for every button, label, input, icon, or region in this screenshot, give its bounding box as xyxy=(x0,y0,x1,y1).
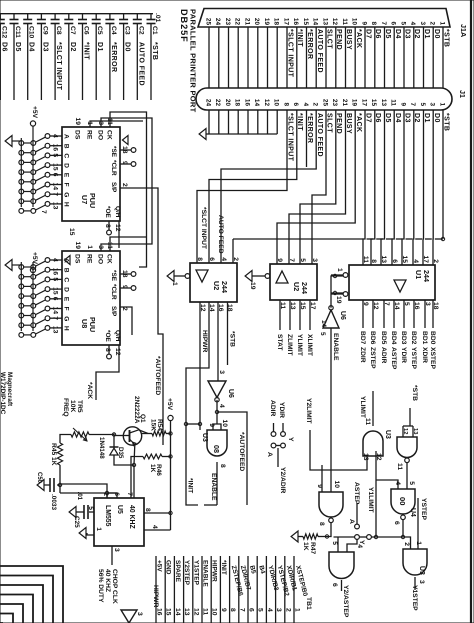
shift register U8 PUU xyxy=(62,251,120,345)
wire D5 from J1 to U1 xyxy=(381,110,385,265)
svg-text:ZLIMIT: ZLIMIT xyxy=(286,334,293,356)
buffer U1 74LS244 xyxy=(349,265,435,300)
svg-text:BD2: BD2 xyxy=(410,331,417,345)
svg-text:20: 20 xyxy=(253,18,260,26)
svg-text:CK: CK xyxy=(106,130,113,140)
svg-text:10: 10 xyxy=(333,481,340,489)
svg-text:U2: U2 xyxy=(292,282,301,291)
wire BD0 XSTEP xyxy=(432,300,434,328)
NAND gate pins 9,10,8 (step pulse) xyxy=(319,492,343,517)
svg-text:7: 7 xyxy=(40,210,47,214)
wire D2 from J1 to U1 xyxy=(412,110,415,265)
svg-text:8: 8 xyxy=(318,522,325,526)
svg-text:C5: C5 xyxy=(96,26,103,35)
wire BD2 YSTEP xyxy=(413,300,415,328)
wire ZLIMIT xyxy=(289,300,291,330)
svg-text:R45: R45 xyxy=(50,443,57,456)
capacitor C8 .01 on *SLCT INPUT xyxy=(54,14,56,20)
wire D1 from J1 to U1 xyxy=(422,110,425,265)
svg-text:12: 12 xyxy=(402,428,408,434)
svg-text:14: 14 xyxy=(52,183,59,191)
wire BD3 YDIR xyxy=(403,300,405,328)
capacitor C11 .01 on D5 xyxy=(13,14,15,20)
svg-text:1: 1 xyxy=(294,608,301,612)
TB1 pin 4 YDIR/B3 xyxy=(265,556,267,623)
svg-text:ZDIR: ZDIR xyxy=(359,347,366,363)
svg-text:13: 13 xyxy=(52,202,59,210)
svg-text:Y1LIMIT: Y1LIMIT xyxy=(367,487,374,514)
svg-text:*CLR: *CLR xyxy=(110,160,117,176)
wire ASTEP to A jumper xyxy=(356,503,358,524)
svg-text:D6: D6 xyxy=(374,29,381,39)
svg-text:4: 4 xyxy=(266,608,273,612)
svg-text:AUTO FEED: AUTO FEED xyxy=(217,215,224,254)
svg-text:6: 6 xyxy=(208,257,215,261)
svg-text:11: 11 xyxy=(362,256,369,263)
svg-text:19: 19 xyxy=(74,242,81,250)
svg-text:G: G xyxy=(63,316,70,321)
AND gate pins 4,5,6 (Y2/ASTEP) xyxy=(329,552,354,579)
svg-text:8: 8 xyxy=(229,608,236,612)
svg-text:FREQ: FREQ xyxy=(62,398,69,417)
svg-text:1K: 1K xyxy=(50,457,57,466)
wire YSTEP into U3 pin 1 xyxy=(417,498,419,549)
AND gate U3 pins 12,13,11 (YLIMIT) xyxy=(363,431,383,456)
TB1 pin 7 ZDIR/B7 xyxy=(238,556,240,623)
svg-text:1: 1 xyxy=(86,245,93,249)
svg-text:C: C xyxy=(63,153,70,158)
svg-text:21: 21 xyxy=(243,18,250,26)
svg-text:4: 4 xyxy=(220,257,227,261)
wire STAT xyxy=(279,300,281,330)
capacitor C1 .01 on *STB xyxy=(150,14,152,20)
svg-text:6: 6 xyxy=(393,521,400,525)
svg-text:C7: C7 xyxy=(69,26,76,35)
TB1 pin 15 GND xyxy=(164,556,166,623)
wire ENABLE into U6 input and NAND xyxy=(330,328,332,492)
svg-text:+5V: +5V xyxy=(31,106,38,119)
svg-text:3: 3 xyxy=(136,612,143,616)
wire BUSY from J1 to U2 input buffer xyxy=(289,110,346,264)
svg-text:2N2222A: 2N2222A xyxy=(133,396,140,424)
svg-text:8: 8 xyxy=(196,257,203,261)
capacitor C7 .01 on D2 xyxy=(68,14,70,20)
svg-text:.01: .01 xyxy=(154,13,161,23)
svg-text:DS: DS xyxy=(74,254,81,264)
svg-text:+5V: +5V xyxy=(166,398,173,411)
wire U7 Q/H stub xyxy=(118,221,120,248)
svg-text:Q/H: Q/H xyxy=(114,206,121,218)
svg-text:14: 14 xyxy=(253,99,260,107)
wire *STB output of U2 xyxy=(227,302,229,365)
svg-text:*SLCT INPUT: *SLCT INPUT xyxy=(55,42,62,91)
resistor R46 1K xyxy=(143,454,162,459)
svg-text:13: 13 xyxy=(380,99,387,107)
svg-text:8: 8 xyxy=(104,348,111,352)
AND gate U3 pins 1,2,3 (Y1STEP) xyxy=(403,549,427,575)
svg-text:*INIT: *INIT xyxy=(83,42,90,60)
svg-text:*ERROR: *ERROR xyxy=(110,42,117,72)
svg-text:*OE: *OE xyxy=(104,330,111,342)
svg-text:YDIR: YDIR xyxy=(400,347,407,363)
svg-text:HIPWR: HIPWR xyxy=(201,330,208,352)
svg-text:12: 12 xyxy=(375,453,382,461)
svg-text:C6: C6 xyxy=(83,26,90,35)
link *INIT to HIPWR wires xyxy=(186,423,200,425)
svg-text:9: 9 xyxy=(220,608,227,612)
svg-text:+5V: +5V xyxy=(31,252,38,265)
buffer U2 74LS244 (half B, toward J1) xyxy=(270,264,317,300)
svg-text:10K: 10K xyxy=(69,400,76,412)
svg-text:4: 4 xyxy=(302,102,309,106)
svg-text:2: 2 xyxy=(232,257,239,261)
svg-text:8: 8 xyxy=(144,508,151,512)
TB1 pin 8 ZSTEP/B6 xyxy=(229,556,231,623)
svg-text:BD7: BD7 xyxy=(359,331,366,345)
svg-text:18: 18 xyxy=(273,18,280,26)
svg-text:C4: C4 xyxy=(110,26,117,35)
wire R45 to C50 and 555 pin 2/6 xyxy=(57,465,60,485)
svg-text:19: 19 xyxy=(351,99,358,107)
svg-text:D5: D5 xyxy=(14,42,21,52)
svg-text:C10: C10 xyxy=(28,26,35,39)
svg-text:5: 5 xyxy=(319,332,326,336)
svg-text:AUTO FEED: AUTO FEED xyxy=(316,29,323,73)
svg-text:U3: U3 xyxy=(201,433,208,442)
svg-text:2: 2 xyxy=(312,102,319,106)
wire DO chain U7-U8 xyxy=(101,118,152,251)
svg-text:23: 23 xyxy=(331,99,338,107)
svg-text:D5: D5 xyxy=(384,29,391,39)
svg-text:*OE: *OE xyxy=(104,206,111,218)
svg-text:23: 23 xyxy=(224,18,231,26)
shift register U7 PUU xyxy=(62,127,120,221)
wire *ACK from J1 to U2 input buffer xyxy=(277,110,355,264)
svg-text:08: 08 xyxy=(212,445,221,453)
svg-text:4: 4 xyxy=(151,525,158,529)
svg-text:.0033: .0033 xyxy=(50,494,57,510)
wire Y2/ADIR from jumper xyxy=(276,445,281,447)
svg-text:11: 11 xyxy=(396,463,403,470)
svg-text:16: 16 xyxy=(156,608,163,616)
TB1 pin 6 B5 xyxy=(247,556,249,623)
svg-text:15K: 15K xyxy=(150,419,157,431)
svg-text:E: E xyxy=(63,173,70,178)
capacitor C6 .01 on *INIT xyxy=(82,14,84,20)
wire BD7 ZDIR xyxy=(362,300,364,328)
svg-text:*STB: *STB xyxy=(151,42,158,60)
svg-text:Y2/ADIR: Y2/ADIR xyxy=(279,467,286,494)
svg-text:13: 13 xyxy=(52,326,59,334)
svg-text:D0: D0 xyxy=(433,29,440,39)
svg-text:J1: J1 xyxy=(458,90,467,98)
wire D4 from J1 to U1 xyxy=(392,110,394,265)
svg-text:19: 19 xyxy=(249,282,256,290)
svg-text:12: 12 xyxy=(263,99,270,107)
svg-text:7: 7 xyxy=(288,258,295,262)
svg-text:3: 3 xyxy=(419,21,426,25)
svg-text:ZSTEP: ZSTEP xyxy=(369,347,376,369)
svg-text:15: 15 xyxy=(401,256,408,264)
svg-text:H: H xyxy=(63,202,70,207)
capacitor C10 .01 on D4 xyxy=(27,14,29,20)
svg-text:40 KHZ: 40 KHZ xyxy=(104,569,111,592)
svg-text:11: 11 xyxy=(202,608,209,615)
svg-text:S/P: S/P xyxy=(110,182,117,193)
wire BD4 ASTEP xyxy=(393,300,395,328)
svg-text:YLIMIT: YLIMIT xyxy=(296,334,303,357)
svg-text:1: 1 xyxy=(438,102,445,106)
svg-text:6: 6 xyxy=(331,583,338,587)
svg-text:Y2LIMIT: Y2LIMIT xyxy=(305,398,312,425)
svg-text:9: 9 xyxy=(399,102,406,106)
svg-text:J1A: J1A xyxy=(459,24,468,37)
wire 555 pin2/pin6 junction xyxy=(60,493,117,498)
svg-text:RE: RE xyxy=(86,254,93,264)
TB1 pin 10 HIPWR xyxy=(210,556,212,623)
svg-text:7: 7 xyxy=(238,608,245,612)
svg-text:D0: D0 xyxy=(124,42,131,52)
svg-text:U4: U4 xyxy=(409,508,416,517)
svg-text:D3: D3 xyxy=(404,29,411,39)
svg-text:SLCT: SLCT xyxy=(326,29,333,49)
TB1 pin 9 *INIT xyxy=(219,556,221,623)
wire corner bend xyxy=(0,566,63,623)
svg-text:7: 7 xyxy=(409,102,416,106)
svg-text:YSTEP: YSTEP xyxy=(410,347,417,369)
svg-text:13: 13 xyxy=(321,18,328,26)
TB1 pin 1 XSTEP/B0 xyxy=(293,556,295,623)
svg-text:U1: U1 xyxy=(414,270,423,279)
ground symbol for J1 ground bus xyxy=(206,133,209,135)
svg-text:U5: U5 xyxy=(116,505,123,514)
transistor Q1 2N2222A xyxy=(123,427,141,445)
svg-text:8: 8 xyxy=(282,102,289,106)
svg-text:F: F xyxy=(63,307,70,311)
wire gate inputs xyxy=(347,540,357,553)
svg-text:8: 8 xyxy=(219,464,226,468)
svg-text:*CLR: *CLR xyxy=(110,284,117,300)
inverter U6 enable driver xyxy=(323,310,339,328)
wire Y1LIMIT line xyxy=(375,451,377,537)
svg-text:1K: 1K xyxy=(302,542,309,551)
svg-text:C11: C11 xyxy=(14,26,21,38)
wire Q1 base xyxy=(114,435,130,437)
svg-text:ADIR: ADIR xyxy=(269,400,276,417)
svg-text:D3: D3 xyxy=(41,42,48,52)
NAND gate U4 7400 pins 4,5,6 xyxy=(391,489,415,514)
svg-text:19: 19 xyxy=(335,296,342,304)
wire corner bend xyxy=(0,622,3,623)
ground for U7 switches xyxy=(12,140,21,142)
U7 input arrow xyxy=(122,136,128,145)
svg-text:15: 15 xyxy=(52,287,59,295)
svg-text:B: B xyxy=(63,268,70,273)
jumper Y select circles xyxy=(367,535,372,540)
svg-text:3: 3 xyxy=(429,102,436,106)
svg-text:16: 16 xyxy=(292,18,299,26)
svg-text:10: 10 xyxy=(351,18,358,26)
svg-text:TB1: TB1 xyxy=(305,597,312,610)
TB1 pin 16 +5V xyxy=(155,556,157,623)
svg-text:C50: C50 xyxy=(36,472,42,484)
svg-text:4: 4 xyxy=(218,404,225,408)
resistor R47 1K to ground xyxy=(318,536,327,538)
svg-text:12: 12 xyxy=(114,224,121,232)
svg-text:4: 4 xyxy=(412,259,419,263)
wire TR5 connections xyxy=(60,435,71,444)
wire D7 from J1 to U1 xyxy=(363,110,365,265)
svg-text:YLIMIT: YLIMIT xyxy=(359,396,366,419)
svg-text:24: 24 xyxy=(204,99,211,107)
svg-text:2: 2 xyxy=(429,21,436,25)
svg-text:4: 4 xyxy=(356,544,363,548)
wire ENABLE from U3 pin 8 xyxy=(216,462,218,505)
svg-text:*SLCT INPUT: *SLCT INPUT xyxy=(200,207,207,250)
svg-text:12: 12 xyxy=(331,18,338,26)
svg-text:C2: C2 xyxy=(137,26,144,35)
svg-text:Q/H: Q/H xyxy=(114,330,121,342)
resistor R45 1K xyxy=(57,443,62,465)
svg-text:14: 14 xyxy=(320,320,327,328)
svg-text:LM555: LM555 xyxy=(104,505,111,527)
svg-text:18: 18 xyxy=(234,99,241,107)
svg-text:4: 4 xyxy=(409,21,416,25)
svg-text:*ACK: *ACK xyxy=(86,382,93,399)
svg-text:U6: U6 xyxy=(227,389,234,398)
svg-text:*INIT: *INIT xyxy=(187,478,194,494)
svg-text:12: 12 xyxy=(192,608,199,616)
svg-text:E: E xyxy=(63,297,70,302)
svg-text:5: 5 xyxy=(257,608,264,612)
svg-text:13: 13 xyxy=(183,608,190,616)
svg-text:CHOP CLK: CHOP CLK xyxy=(111,569,118,604)
svg-text:C12: C12 xyxy=(0,26,7,39)
inverter U6 pins 3-4 xyxy=(208,381,226,398)
svg-text:D1: D1 xyxy=(423,29,430,39)
svg-text:RE: RE xyxy=(86,130,93,140)
svg-text:20: 20 xyxy=(224,99,231,107)
svg-text:8: 8 xyxy=(370,259,377,263)
wire BD1 XDIR xyxy=(424,300,426,328)
wire Y2/ASTEP output xyxy=(341,580,343,591)
svg-text:2: 2 xyxy=(432,259,439,263)
wire *INIT from J1 to U2 xyxy=(209,110,297,263)
svg-text:C: C xyxy=(63,277,70,282)
wire diode to TR5 timing node xyxy=(89,434,114,436)
svg-text:14: 14 xyxy=(312,18,319,26)
svg-text:40 KHZ: 40 KHZ xyxy=(128,505,135,530)
svg-text:PEND: PEND xyxy=(335,29,342,50)
wire Y2LIMIT to U3 pin 13 xyxy=(310,430,367,470)
svg-text:B: B xyxy=(63,144,70,149)
svg-text:H: H xyxy=(63,326,70,331)
wire U8 S/P stub xyxy=(120,307,132,335)
svg-text:AUTO FEED: AUTO FEED xyxy=(137,42,144,86)
U1 enable pins 1,19 with bubbles xyxy=(343,273,348,278)
svg-text:9: 9 xyxy=(276,258,283,262)
svg-text:BD3: BD3 xyxy=(400,331,407,345)
svg-text:8: 8 xyxy=(370,21,377,25)
svg-text:BD4: BD4 xyxy=(390,331,397,345)
svg-text:YDIR: YDIR xyxy=(278,402,285,418)
svg-text:*SE: *SE xyxy=(110,146,117,158)
buffer U2 74LS244 (half A, from J1) xyxy=(190,263,237,302)
svg-text:25: 25 xyxy=(321,99,328,107)
svg-text:*SLCT INPUT: *SLCT INPUT xyxy=(287,29,294,78)
wire PEND from J1 to U2 input buffer xyxy=(300,110,336,264)
svg-text:15: 15 xyxy=(302,18,309,26)
wire corner bend xyxy=(0,614,13,623)
svg-text:.01: .01 xyxy=(76,492,82,501)
U8 input arrow xyxy=(64,256,70,265)
wire U7 S/P to *AUTOFEED xyxy=(120,188,163,445)
U7 switch common rails xyxy=(32,138,34,207)
svg-text:11: 11 xyxy=(390,99,397,106)
svg-text:*AUTOFEED: *AUTOFEED xyxy=(238,432,245,471)
svg-text:+5V: +5V xyxy=(156,560,163,572)
svg-text:U8: U8 xyxy=(80,319,89,328)
svg-text:*ERROR: *ERROR xyxy=(306,29,313,59)
svg-text:CK: CK xyxy=(106,254,113,264)
wire *ERROR stub from J1 xyxy=(306,110,308,167)
svg-text:SPARE: SPARE xyxy=(174,560,181,583)
svg-text:14: 14 xyxy=(174,608,181,616)
svg-text:*STB: *STB xyxy=(411,385,418,401)
connector J1A (DB25F parallel printer port) xyxy=(198,9,450,28)
wire SLCT from J1 to U2 input buffer xyxy=(312,110,326,264)
svg-text:Y1STEP: Y1STEP xyxy=(411,585,418,611)
svg-text:17: 17 xyxy=(282,18,289,26)
svg-text:3: 3 xyxy=(218,370,225,374)
svg-text:DS: DS xyxy=(74,130,81,140)
TB1 pin 2 XDIR/B1 xyxy=(284,556,286,623)
wire BD5 ADIR xyxy=(383,300,385,328)
svg-text:G: G xyxy=(63,192,70,197)
TB1 pin 12 Y1STEP xyxy=(192,556,194,623)
capacitor C50 .0033 xyxy=(53,478,55,492)
svg-text:C8: C8 xyxy=(55,26,62,35)
svg-text:*INIT: *INIT xyxy=(220,560,227,575)
wire D0 from J1 to U1 xyxy=(432,110,434,265)
wire U4 pin 11 out to U4 pin 5 xyxy=(406,463,408,489)
capacitor bank bus xyxy=(0,13,153,15)
wire BD6 ZSTEP xyxy=(372,300,374,328)
capacitor C3 .01 on D0 xyxy=(123,14,125,20)
wire U7 RE stub xyxy=(90,121,143,127)
svg-text:D2: D2 xyxy=(69,42,76,52)
wire +5V rail xyxy=(170,420,172,530)
svg-text:3: 3 xyxy=(275,608,282,612)
svg-text:A: A xyxy=(63,134,70,139)
svg-text:D6: D6 xyxy=(0,42,7,52)
svg-text:Q1: Q1 xyxy=(139,414,146,423)
svg-text:10: 10 xyxy=(273,99,280,107)
svg-text:6: 6 xyxy=(292,102,299,106)
svg-text:3: 3 xyxy=(113,548,120,552)
wire U6 output to gate U3 and *AUTOFEED xyxy=(216,400,218,424)
TB1 pin 14 SPARE xyxy=(173,556,175,623)
connector J1 (26-pin header) xyxy=(196,88,452,110)
svg-text:D1: D1 xyxy=(96,42,103,52)
U2 enable pin 19 to ground xyxy=(265,274,270,279)
svg-text:13: 13 xyxy=(380,256,387,264)
svg-text:2: 2 xyxy=(284,608,291,612)
svg-text:19: 19 xyxy=(74,118,81,126)
TB1 pin 3 YSTEP/B2 xyxy=(275,556,277,623)
svg-text:9: 9 xyxy=(360,21,367,25)
svg-text:TR5: TR5 xyxy=(76,400,83,413)
